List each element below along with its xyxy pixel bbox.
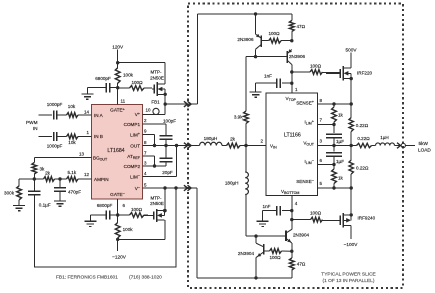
- svg-text:0.22Ω: 0.22Ω: [356, 165, 369, 170]
- svg-text:12: 12: [84, 172, 90, 177]
- svg-text:100Ω: 100Ω: [269, 255, 281, 260]
- svg-text:100pF: 100pF: [163, 118, 176, 123]
- svg-text:100Ω: 100Ω: [310, 63, 322, 68]
- svg-text:LT1166: LT1166: [284, 133, 301, 139]
- svg-text:6800pF: 6800pF: [97, 203, 113, 208]
- svg-text:−120V: −120V: [112, 255, 127, 260]
- svg-text:2N3904: 2N3904: [238, 251, 255, 256]
- svg-text:100Ω: 100Ω: [131, 207, 143, 212]
- svg-text:1000pF: 1000pF: [47, 144, 63, 149]
- svg-text:−100V: −100V: [344, 242, 359, 247]
- svg-text:1nF: 1nF: [264, 73, 272, 78]
- svg-text:300k: 300k: [4, 191, 15, 196]
- svg-text:AMPIN: AMPIN: [94, 177, 109, 182]
- svg-text:2N3906: 2N3906: [237, 37, 254, 42]
- svg-text:2N3906: 2N3906: [289, 54, 306, 59]
- svg-text:IRF220: IRF220: [357, 71, 373, 76]
- svg-text:1µF: 1µF: [336, 139, 344, 144]
- svg-text:MTP-: MTP-: [151, 70, 162, 75]
- svg-text:10k: 10k: [68, 104, 76, 109]
- svg-text:20pF: 20pF: [162, 170, 173, 175]
- svg-text:10: 10: [146, 107, 152, 112]
- svg-text:2N50E: 2N50E: [150, 201, 164, 206]
- svg-text:120V: 120V: [112, 44, 124, 49]
- svg-text:LT1684: LT1684: [107, 148, 124, 154]
- svg-text:IN: IN: [33, 126, 38, 131]
- svg-text:100Ω: 100Ω: [131, 80, 143, 85]
- svg-text:1000pF: 1000pF: [47, 102, 63, 107]
- svg-text:IRF9240: IRF9240: [358, 216, 376, 221]
- svg-text:100k: 100k: [123, 72, 134, 77]
- svg-text:2k: 2k: [45, 171, 51, 176]
- svg-text:2k: 2k: [230, 137, 236, 142]
- svg-text:1k: 1k: [338, 113, 344, 118]
- svg-text:470pF: 470pF: [68, 190, 81, 195]
- svg-text:LOAD: LOAD: [418, 147, 431, 152]
- svg-text:6800pF: 6800pF: [95, 76, 111, 81]
- svg-text:100k: 100k: [123, 227, 134, 232]
- svg-text:10k: 10k: [68, 140, 76, 145]
- svg-text:14: 14: [84, 109, 90, 114]
- svg-text:0.1µF: 0.1µF: [39, 202, 51, 207]
- svg-text:OUT: OUT: [130, 143, 140, 148]
- svg-text:MTP-: MTP-: [151, 195, 162, 200]
- svg-text:1µH: 1µH: [380, 135, 389, 140]
- svg-text:5.1k: 5.1k: [67, 170, 76, 175]
- svg-text:180µH: 180µH: [225, 181, 239, 186]
- svg-text:1µF: 1µF: [336, 159, 344, 164]
- svg-text:0.22Ω: 0.22Ω: [356, 123, 369, 128]
- svg-text:11: 11: [121, 98, 126, 103]
- svg-text:IN A: IN A: [94, 113, 104, 118]
- svg-text:0.22Ω: 0.22Ω: [357, 136, 370, 141]
- svg-text:13: 13: [79, 152, 85, 157]
- svg-text:100Ω: 100Ω: [268, 31, 280, 36]
- svg-text:47Ω: 47Ω: [297, 24, 306, 29]
- svg-text:IN B: IN B: [94, 134, 103, 139]
- svg-text:5kW: 5kW: [419, 141, 429, 146]
- svg-text:TYPICAL POWER SLICE: TYPICAL POWER SLICE: [321, 271, 375, 277]
- svg-text:3.9k: 3.9k: [234, 115, 243, 120]
- svg-text:FB1: FB1: [151, 100, 160, 105]
- svg-text:FB1: FERRONICS FMB1601: FB1: FERRONICS FMB1601: [56, 275, 118, 281]
- svg-text:100Ω: 100Ω: [310, 210, 322, 215]
- svg-text:2N50E: 2N50E: [150, 75, 164, 80]
- svg-text:(716) 388-1020: (716) 388-1020: [129, 275, 162, 281]
- svg-text:COMP2: COMP2: [124, 164, 141, 169]
- svg-text:PWM: PWM: [26, 120, 38, 125]
- svg-text:1nF: 1nF: [263, 204, 271, 209]
- svg-text:COMP1: COMP1: [124, 122, 141, 127]
- svg-text:500V: 500V: [346, 48, 358, 53]
- svg-text:47Ω: 47Ω: [297, 261, 306, 266]
- svg-text:180µH: 180µH: [204, 136, 218, 141]
- svg-text:1k: 1k: [338, 176, 344, 181]
- svg-text:(1 OF 13 IN PARALLEL): (1 OF 13 IN PARALLEL): [323, 278, 375, 284]
- svg-text:2N3904: 2N3904: [293, 232, 310, 237]
